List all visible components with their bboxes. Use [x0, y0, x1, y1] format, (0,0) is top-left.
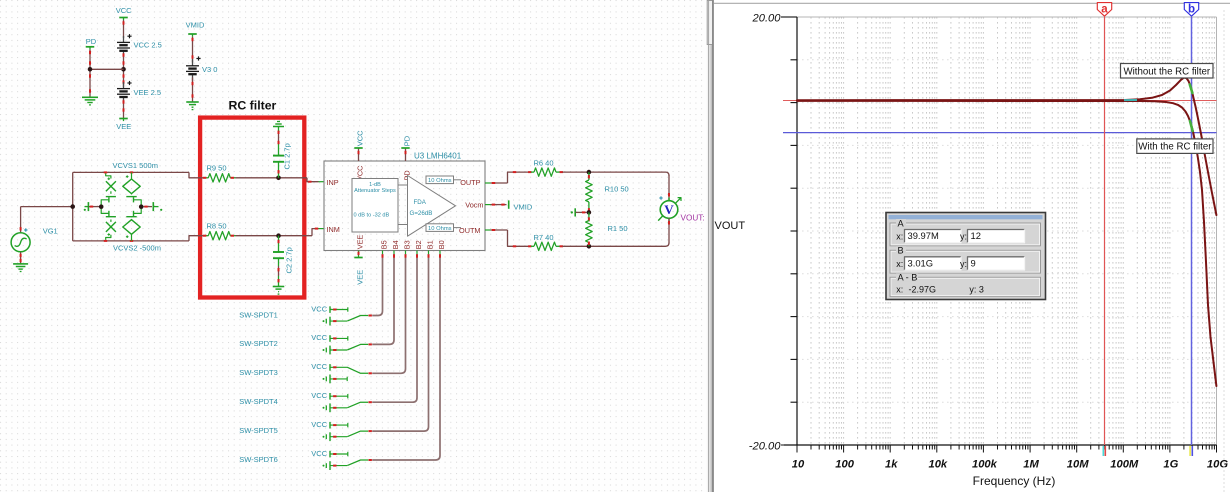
- svg-text:VEE: VEE: [355, 270, 364, 285]
- svg-text:y: 3: y: 3: [969, 284, 984, 294]
- svg-text:Attenuator Steps: Attenuator Steps: [354, 188, 396, 194]
- svg-text:B5: B5: [380, 240, 389, 249]
- svg-text:39.97M: 39.97M: [908, 230, 939, 241]
- svg-text:VCC: VCC: [116, 6, 132, 15]
- svg-text:VOUT: VOUT: [715, 220, 746, 232]
- svg-text:-2.97G: -2.97G: [909, 284, 937, 294]
- svg-text:VCC: VCC: [311, 449, 327, 458]
- svg-text:R8 50: R8 50: [207, 222, 227, 231]
- svg-text:R1 50: R1 50: [608, 224, 628, 233]
- svg-text:B0: B0: [437, 240, 446, 249]
- svg-text:OUTP: OUTP: [460, 178, 480, 187]
- svg-text:VCC: VCC: [311, 333, 327, 342]
- svg-text:A - B: A - B: [898, 273, 918, 283]
- svg-text:INM: INM: [327, 225, 340, 234]
- svg-text:100k: 100k: [972, 459, 998, 471]
- svg-text:b: b: [1188, 4, 1195, 16]
- svg-text:3.01G: 3.01G: [908, 257, 934, 268]
- svg-text:OUTM: OUTM: [459, 226, 480, 235]
- svg-text:VEE 2.5: VEE 2.5: [134, 88, 162, 97]
- svg-text:y:: y:: [960, 232, 967, 242]
- svg-text:B3: B3: [403, 240, 412, 249]
- svg-text:1M: 1M: [1023, 459, 1039, 471]
- svg-text:10k: 10k: [928, 459, 947, 471]
- svg-text:C1 2.7p: C1 2.7p: [283, 143, 292, 169]
- svg-text:SW-SPDT5: SW-SPDT5: [239, 426, 278, 435]
- svg-text:B4: B4: [391, 240, 400, 249]
- svg-text:G=26dB: G=26dB: [410, 210, 433, 217]
- svg-text:0 dB to -32 dB: 0 dB to -32 dB: [354, 213, 390, 219]
- svg-text:x:: x:: [896, 284, 903, 294]
- svg-text:VCVS2 -500m: VCVS2 -500m: [113, 244, 161, 253]
- svg-text:VCC: VCC: [311, 420, 327, 429]
- svg-text:Vocm: Vocm: [465, 201, 483, 210]
- svg-text:B2: B2: [414, 240, 423, 249]
- svg-text:y:: y:: [960, 259, 967, 269]
- svg-text:VOUT:: VOUT:: [681, 213, 705, 222]
- svg-text:INP: INP: [327, 178, 339, 187]
- svg-text:SW-SPDT3: SW-SPDT3: [239, 368, 278, 377]
- svg-text:VCC: VCC: [311, 391, 327, 400]
- svg-text:9: 9: [971, 257, 976, 268]
- svg-text:B: B: [898, 246, 904, 256]
- svg-text:R7 40: R7 40: [534, 233, 554, 242]
- svg-text:SW-SPDT2: SW-SPDT2: [239, 339, 278, 348]
- svg-text:100M: 100M: [1110, 459, 1139, 471]
- svg-text:VG1: VG1: [43, 227, 58, 236]
- svg-text:-20.00: -20.00: [749, 441, 781, 453]
- svg-text:Frequency (Hz): Frequency (Hz): [973, 474, 1056, 488]
- svg-text:1G: 1G: [1163, 459, 1178, 471]
- svg-text:SW-SPDT4: SW-SPDT4: [239, 397, 278, 406]
- svg-text:R9 50: R9 50: [207, 164, 227, 173]
- svg-text:10G: 10G: [1207, 459, 1228, 471]
- svg-text:100: 100: [835, 459, 854, 471]
- svg-text:U3 LMH6401: U3 LMH6401: [414, 152, 462, 161]
- svg-text:V: V: [664, 202, 674, 217]
- svg-text:SW-SPDT6: SW-SPDT6: [239, 455, 278, 464]
- svg-text:1k: 1k: [885, 459, 898, 471]
- svg-text:10: 10: [792, 459, 805, 471]
- svg-text:A: A: [898, 218, 905, 228]
- svg-text:B1: B1: [426, 240, 435, 249]
- svg-text:VCVS1 500m: VCVS1 500m: [113, 161, 158, 170]
- svg-text:10 Ohms: 10 Ohms: [428, 226, 452, 232]
- svg-text:a: a: [1101, 4, 1108, 16]
- svg-text:VCC: VCC: [355, 130, 364, 146]
- svg-text:C2 2.7p: C2 2.7p: [285, 247, 294, 273]
- svg-text:R6 40: R6 40: [534, 159, 554, 168]
- svg-text:VCC: VCC: [311, 304, 327, 313]
- svg-text:20.00: 20.00: [752, 13, 782, 25]
- svg-text:FDA: FDA: [414, 199, 427, 206]
- svg-text:Without the RC filter: Without the RC filter: [1123, 66, 1210, 77]
- svg-text:10M: 10M: [1067, 459, 1089, 471]
- svg-text:R10 50: R10 50: [605, 185, 629, 194]
- svg-text:PD: PD: [402, 135, 411, 146]
- svg-text:12: 12: [971, 230, 981, 241]
- svg-text:SW-SPDT1: SW-SPDT1: [239, 310, 278, 319]
- svg-text:RC filter: RC filter: [229, 99, 277, 113]
- svg-text:V3 0: V3 0: [202, 65, 217, 74]
- svg-text:PD: PD: [86, 37, 97, 46]
- svg-text:VEE: VEE: [355, 235, 364, 250]
- svg-text:x:: x:: [896, 232, 903, 242]
- svg-text:VEE: VEE: [116, 122, 131, 131]
- svg-text:VMID: VMID: [186, 21, 205, 30]
- svg-text:10 Ohms: 10 Ohms: [428, 178, 452, 184]
- svg-text:VMID: VMID: [514, 202, 533, 211]
- svg-text:VCC 2.5: VCC 2.5: [134, 41, 162, 50]
- svg-text:With the RC filter: With the RC filter: [1138, 142, 1212, 153]
- svg-text:VCC: VCC: [311, 362, 327, 371]
- svg-text:x:: x:: [896, 259, 903, 269]
